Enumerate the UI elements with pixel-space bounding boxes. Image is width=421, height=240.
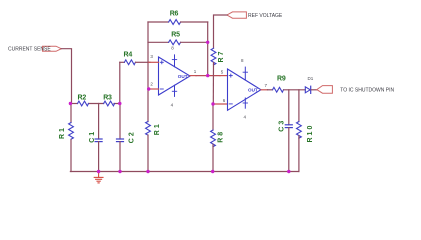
pin 5 stub — [220, 70, 228, 76]
capacitor C1 — [89, 104, 102, 172]
svg-text:R9: R9 — [277, 76, 286, 83]
svg-text:8: 8 — [171, 46, 174, 51]
wire input from CURRENT SENSE down to R2 row — [61, 49, 71, 104]
op-amp U1A — [159, 55, 191, 97]
svg-text:4: 4 — [171, 102, 174, 107]
pin 1 stub OUT — [190, 69, 197, 76]
resistor R8 — [211, 104, 225, 172]
svg-text:3: 3 — [150, 54, 153, 59]
wire R4 drop from R3 junction — [119, 62, 121, 103]
svg-text:1: 1 — [194, 69, 197, 74]
resistor R7 — [211, 48, 225, 104]
wire bottom ground rail — [70, 171, 299, 173]
wire feedback left vertical (R5/R6 to pin2 to R1) — [147, 22, 149, 122]
resistor R4 — [120, 52, 150, 65]
resistor R9 — [273, 76, 306, 93]
svg-text:R4: R4 — [124, 52, 133, 59]
svg-text:R7: R7 — [218, 50, 225, 63]
wire OUT2 to R9 — [268, 89, 273, 91]
capacitor C3 — [278, 90, 292, 172]
svg-text:REF VOLTAGE: REF VOLTAGE — [248, 13, 283, 19]
pin 3 stub — [149, 54, 159, 62]
svg-text:R5: R5 — [171, 31, 180, 38]
wire OUT1 to pin5 — [196, 75, 220, 77]
svg-text:2: 2 — [150, 82, 153, 87]
diode D1 — [305, 76, 317, 94]
resistor R10 — [297, 90, 315, 172]
resistor R5 feedback — [148, 31, 208, 44]
svg-text:5: 5 — [221, 70, 224, 75]
ground — [94, 172, 103, 183]
svg-text:4: 4 — [244, 115, 247, 120]
svg-text:OUT: OUT — [178, 74, 188, 79]
op-amp U1B — [228, 67, 261, 110]
svg-text:6: 6 — [223, 98, 226, 103]
wire R2/R3 row — [70, 103, 119, 105]
pin 2 stub — [149, 82, 159, 89]
wire REF VOLTAGE down to R7 — [214, 15, 228, 48]
resistor R1 left vertical — [59, 104, 73, 172]
svg-text:R6: R6 — [170, 10, 179, 17]
resistor R6 top feedback — [148, 10, 208, 24]
port TO IC SHUTDOWN PIN — [317, 86, 395, 94]
capacitor C2 — [117, 104, 136, 172]
svg-text:CURRENT SENSE: CURRENT SENSE — [8, 47, 51, 53]
resistor R1 right vertical — [146, 122, 161, 172]
svg-text:OUT: OUT — [248, 88, 258, 93]
wire feedback right vertical (R6/R5 down to OUT junction) — [207, 22, 209, 76]
svg-text:C1: C1 — [89, 130, 96, 143]
resistor R3 — [103, 94, 114, 106]
pin 7 stub OUT — [261, 83, 268, 90]
svg-text:C2: C2 — [128, 130, 135, 143]
svg-text:R3: R3 — [103, 94, 112, 101]
port CURRENT SENSE — [8, 46, 61, 52]
svg-text:R8: R8 — [218, 130, 225, 143]
svg-text:R1: R1 — [154, 122, 161, 135]
svg-text:C3: C3 — [278, 119, 285, 132]
resistor R2 — [78, 94, 89, 106]
svg-text:D1: D1 — [308, 76, 314, 81]
svg-text:TO IC SHUTDOWN PIN: TO IC SHUTDOWN PIN — [340, 87, 394, 93]
svg-text:R1: R1 — [59, 126, 66, 139]
port REF VOLTAGE — [227, 12, 283, 19]
svg-text:8: 8 — [241, 58, 244, 63]
svg-text:7: 7 — [265, 83, 268, 88]
svg-text:R10: R10 — [307, 124, 314, 143]
pin 6 stub — [213, 98, 228, 104]
svg-text:R2: R2 — [78, 94, 87, 101]
